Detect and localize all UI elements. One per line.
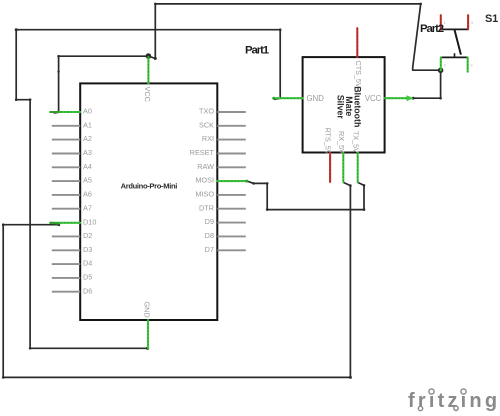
- svg-text:A1: A1: [83, 120, 92, 129]
- svg-text:GND: GND: [307, 94, 325, 103]
- pin DTR: [199, 203, 246, 212]
- switch S1 pin 2b green leg: [467, 57, 469, 71]
- pin MISO: [195, 190, 245, 199]
- pin D5: [52, 273, 93, 282]
- pin A6: [52, 190, 92, 199]
- svg-text:DTR: DTR: [199, 203, 214, 212]
- svg-text:SCK: SCK: [199, 120, 214, 129]
- pin D10 (connected, green leg): [50, 217, 96, 226]
- svg-text:D7: D7: [205, 245, 214, 254]
- pin D4: [52, 259, 93, 268]
- svg-text:A4: A4: [83, 162, 92, 171]
- pin A4: [52, 162, 92, 171]
- pin RTS_5V of BT (red leg, unconnected): [324, 128, 333, 183]
- label Bluetooth Mate Silver: [336, 86, 363, 127]
- svg-text:RESET: RESET: [190, 148, 215, 157]
- pin GND bottom of Arduino (green leg): [143, 302, 152, 349]
- svg-text:A6: A6: [83, 190, 92, 199]
- svg-text:D5: D5: [83, 273, 92, 282]
- pin VCC top of Arduino (green leg): [143, 57, 152, 102]
- svg-text:Arduino-Pro-Mini: Arduino-Pro-Mini: [121, 182, 178, 191]
- pin A1: [52, 120, 92, 129]
- pin VCC of BT (green leg with arrow): [365, 94, 414, 103]
- svg-text:A2: A2: [83, 134, 92, 143]
- svg-text:D8: D8: [205, 231, 214, 240]
- svg-text:D10: D10: [83, 217, 96, 226]
- pin D6: [52, 286, 93, 295]
- pin D3: [52, 245, 93, 254]
- junction dot at VCC: [146, 53, 152, 59]
- switch S1 bottom bar: [441, 56, 468, 58]
- wire: BT GND to Arduino GND net: [15, 28, 282, 350]
- pin RXI: [202, 134, 246, 143]
- pin MOSI (connected, green leg): [195, 176, 248, 185]
- svg-text:VCC: VCC: [143, 87, 152, 102]
- svg-text:D6: D6: [83, 286, 92, 295]
- svg-text:D4: D4: [83, 259, 92, 268]
- fritzing logo: [408, 389, 500, 412]
- pin A7: [52, 203, 92, 212]
- pin D9: [205, 217, 246, 226]
- svg-text:Silver: Silver: [336, 95, 346, 120]
- svg-text:TX_5V: TX_5V: [351, 131, 360, 153]
- IC U2 Bluetooth Mate Silver body: [303, 57, 385, 152]
- svg-text:A3: A3: [83, 148, 92, 157]
- pin CTS_5V of BT (red leg, unconnected): [354, 28, 363, 88]
- svg-text:A0: A0: [83, 107, 92, 116]
- pin D8: [205, 231, 246, 240]
- wire: D10 to RX_5V: [2, 182, 352, 379]
- pin GND of BT (green leg): [272, 94, 324, 103]
- switch S1 pin 3 red leg: [467, 15, 469, 29]
- pin D7: [205, 245, 246, 254]
- pin TXO: [199, 107, 246, 116]
- wire: MOSI to TX_5V: [247, 181, 365, 211]
- switch S1 common tick: [454, 53, 456, 57]
- svg-text:A7: A7: [83, 203, 92, 212]
- wire: A0 to VCC junction: [54, 55, 148, 113]
- svg-text:RX_5V: RX_5V: [337, 131, 346, 154]
- pin RX_5V of BT (green leg): [337, 131, 346, 182]
- pin D2: [52, 231, 93, 240]
- svg-text:GND: GND: [143, 302, 152, 318]
- svg-text:CTS_5V: CTS_5V: [354, 61, 363, 88]
- switch S1 top bar: [441, 28, 468, 30]
- switch S1 tiny pin labels: [444, 20, 474, 68]
- svg-text:Part1: Part1: [245, 45, 270, 57]
- svg-text:A5: A5: [83, 176, 92, 185]
- pin A2: [52, 134, 92, 143]
- pin SCK: [199, 120, 246, 129]
- pin A0 (connected, green leg): [50, 107, 92, 116]
- pin RESET: [190, 148, 246, 157]
- svg-text:VCC: VCC: [365, 94, 382, 103]
- svg-text:TXO: TXO: [199, 107, 214, 116]
- switch S1 pin 2a green leg: [440, 57, 442, 70]
- pin RAW: [197, 162, 246, 171]
- svg-text:D2: D2: [83, 231, 92, 240]
- svg-text:D3: D3: [83, 245, 92, 254]
- svg-text:RTS_5V: RTS_5V: [324, 128, 333, 155]
- wire: VCC junction to switch to BT VCC: [148, 3, 442, 100]
- pin A5: [52, 176, 92, 185]
- pin A3: [52, 148, 92, 157]
- switch S1 lever: [455, 30, 461, 55]
- svg-text:MOSI: MOSI: [195, 176, 214, 185]
- switch S1 pin 1 red leg: [440, 15, 442, 29]
- svg-text:Part2: Part2: [420, 23, 444, 35]
- svg-text:MISO: MISO: [195, 190, 214, 199]
- junction dot at switch common: [438, 68, 444, 74]
- IC U1 Arduino-Pro-Mini body: [80, 83, 217, 320]
- pin TX_5V of BT (green leg): [351, 131, 360, 182]
- svg-text:RXI: RXI: [202, 134, 214, 143]
- svg-text:S1: S1: [485, 13, 498, 25]
- svg-text:RAW: RAW: [197, 162, 214, 171]
- svg-text:D9: D9: [205, 217, 214, 226]
